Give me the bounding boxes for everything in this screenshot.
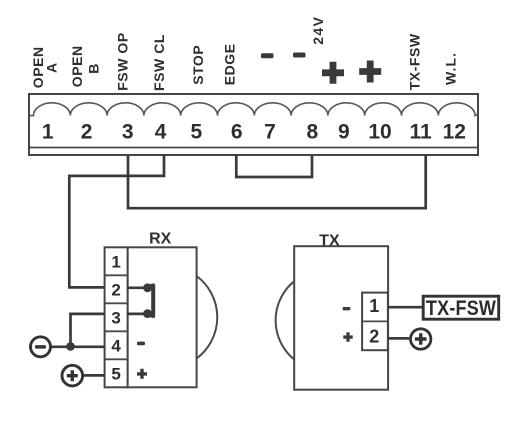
svg-text:11: 11	[409, 121, 432, 144]
svg-text:2: 2	[81, 121, 93, 144]
wire terminal 4 to RX pin 2	[69, 155, 164, 287]
junction node dot	[66, 342, 75, 351]
jumper wire terminal 6 to terminal 8	[236, 155, 312, 177]
terminal clamp scallop arcs	[30, 103, 478, 116]
TX minus polarity mark pin 1	[343, 307, 351, 310]
RX jumper bottom dot	[143, 309, 152, 318]
polarity minus sign terminal 8	[293, 53, 306, 58]
svg-text:9: 9	[338, 121, 350, 144]
negative supply minus bar	[35, 345, 46, 349]
svg-text:8: 8	[306, 121, 318, 144]
svg-text:1: 1	[111, 252, 120, 271]
svg-text:7: 7	[264, 121, 276, 144]
svg-text:6: 6	[231, 121, 243, 144]
svg-text:A: A	[44, 62, 60, 73]
svg-text:FSW CL: FSW CL	[151, 34, 167, 91]
svg-text:TX-FSW: TX-FSW	[407, 33, 423, 90]
svg-text:RX: RX	[149, 230, 172, 247]
branch wire junction to RX pin 3	[71, 314, 105, 347]
TX terminal strip cell separator	[362, 320, 388, 322]
RX jumper pin3 stub wire	[128, 313, 144, 316]
svg-text:3: 3	[122, 121, 134, 144]
TX lens arc	[276, 281, 295, 359]
polarity plus sign terminal 9	[322, 62, 344, 84]
svg-text:5: 5	[190, 121, 202, 144]
RX lens arc	[197, 276, 218, 359]
svg-text:W.L.: W.L.	[443, 52, 459, 85]
svg-text:1: 1	[369, 296, 379, 316]
wire negative supply to RX pin 4	[50, 345, 104, 348]
svg-text:4: 4	[111, 336, 121, 355]
svg-text:TX-FSW: TX-FSW	[426, 297, 496, 321]
svg-text:1: 1	[42, 121, 54, 144]
RX minus polarity mark pin 4	[137, 342, 145, 346]
terminal block inner bottom line	[30, 147, 478, 149]
wire TX pin 1 to TX-FSW tag	[388, 306, 423, 309]
RX terminal strip	[105, 247, 128, 387]
RX plus polarity mark pin 5	[137, 369, 147, 379]
svg-text:24V: 24V	[310, 16, 326, 45]
svg-text:2: 2	[111, 280, 120, 299]
RX jumper top dot	[143, 283, 152, 292]
TX-FSW tag box	[423, 296, 499, 319]
svg-text:12: 12	[443, 121, 466, 144]
svg-text:3: 3	[111, 308, 120, 327]
svg-text:5: 5	[111, 364, 120, 383]
terminal block J1 outer body	[29, 94, 478, 155]
TX photocell body	[294, 246, 388, 390]
positive supply terminal circle at TX	[411, 329, 431, 349]
svg-text:FSW OP: FSW OP	[115, 32, 131, 91]
RX jumper pin2 stub wire	[128, 286, 144, 289]
svg-text:STOP: STOP	[190, 45, 206, 85]
RX jumper bar	[148, 285, 154, 316]
svg-text:B: B	[86, 63, 102, 74]
wire positive supply to RX pin 5	[82, 374, 105, 377]
polarity plus sign terminal 10	[359, 61, 381, 83]
svg-text:10: 10	[368, 121, 391, 144]
positive supply terminal circle at RX	[62, 365, 83, 386]
polarity minus sign terminal 7	[261, 53, 274, 58]
TX plus polarity mark pin 2	[343, 332, 352, 342]
RX photocell body	[128, 247, 197, 387]
wire terminal 3 to terminal 11	[128, 155, 426, 208]
positive supply plus mark at TX	[415, 333, 427, 345]
wire TX pin 2 to positive supply	[388, 337, 409, 340]
RX terminal strip cell separators	[105, 275, 128, 359]
TX terminal strip	[362, 293, 388, 351]
negative supply terminal circle	[31, 337, 51, 357]
svg-text:EDGE: EDGE	[222, 43, 238, 85]
positive supply plus mark at RX	[67, 370, 78, 381]
svg-text:4: 4	[155, 121, 167, 144]
svg-text:OPEN: OPEN	[69, 45, 85, 87]
svg-text:2: 2	[369, 326, 379, 346]
